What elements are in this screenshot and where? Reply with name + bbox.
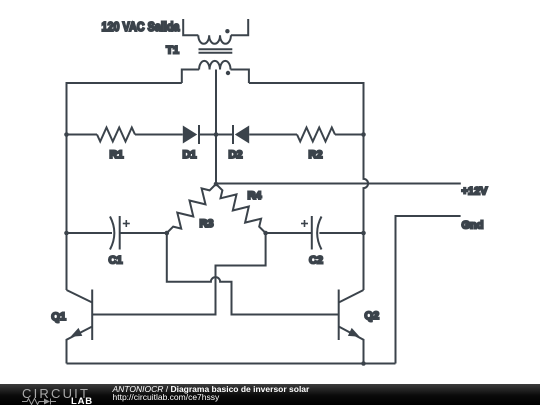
center tap <box>215 70 217 135</box>
capacitor C2 <box>266 216 364 250</box>
svg-text:Q1: Q1 <box>51 311 66 323</box>
Gnd wire <box>396 216 461 364</box>
primary left terminal <box>183 19 198 35</box>
junction Q2 emitter / ground rail <box>361 361 366 366</box>
junction C1 / R3 <box>165 231 170 236</box>
junction right rail / R2 row <box>361 132 366 137</box>
junction left rail / R1 row <box>64 132 69 137</box>
diode D1 <box>183 125 199 144</box>
+12V wire <box>216 183 461 185</box>
secondary right lead <box>231 70 249 84</box>
wire D2 to R2 <box>249 134 297 136</box>
svg-text:R2: R2 <box>308 149 322 161</box>
primary winding humps <box>198 35 231 44</box>
capacitor C1 <box>67 216 167 250</box>
primary polarity dot <box>225 29 229 33</box>
svg-text:C2: C2 <box>309 255 323 267</box>
svg-text:D2: D2 <box>228 149 242 161</box>
secondary left lead <box>182 70 199 84</box>
wire D1 to D2 <box>199 134 233 136</box>
wire top-left <box>67 83 182 135</box>
junction R4 / C2 <box>263 231 268 236</box>
svg-text:R4: R4 <box>247 190 262 202</box>
wire R1 to D1 <box>135 134 183 136</box>
resistor R4 <box>216 184 266 233</box>
cross wire R3 to Q2 base with hop <box>167 233 339 315</box>
junction center tap / diode cathodes <box>214 132 219 137</box>
secondary winding humps <box>199 61 230 70</box>
secondary polarity dot <box>226 71 230 75</box>
logo CIRCUIT <box>22 386 90 401</box>
svg-text:Gnd: Gnd <box>462 220 484 232</box>
resistor R1 <box>97 128 135 142</box>
svg-text:T1: T1 <box>166 45 179 57</box>
svg-text:Q2: Q2 <box>365 310 380 322</box>
resistor R3 <box>167 184 216 233</box>
wire C1 left <box>66 135 68 291</box>
svg-text:120 VAC Salida: 120 VAC Salida <box>102 19 181 34</box>
node +12V junction R3/R4 top <box>214 182 219 187</box>
bottom rail <box>67 363 396 365</box>
svg-text:+12V: +12V <box>462 186 489 198</box>
center tap down to R3/R4 node <box>215 135 217 185</box>
resistor R2 <box>297 128 335 142</box>
svg-text:D1: D1 <box>182 149 196 161</box>
svg-text:C1: C1 <box>108 255 122 267</box>
wire R2 right <box>335 134 364 136</box>
right rail with hop over +12V <box>364 135 369 291</box>
svg-text:R1: R1 <box>109 149 123 161</box>
junction left rail / C1 <box>64 231 69 236</box>
primary right terminal <box>231 19 248 35</box>
svg-text:R3: R3 <box>199 218 213 230</box>
wire row1 left <box>67 134 98 136</box>
cross wire R4 to Q1 base <box>92 233 265 315</box>
transistor Q2 <box>339 290 364 364</box>
core lines <box>199 48 233 50</box>
wire top-right <box>249 83 364 135</box>
transistor Q1 <box>67 290 93 364</box>
logo squiggle + LAB <box>22 397 72 406</box>
footer text <box>113 384 310 394</box>
transformer T1 <box>182 19 249 135</box>
junction C2 / right rail <box>361 231 366 236</box>
diode D2 <box>233 125 249 144</box>
